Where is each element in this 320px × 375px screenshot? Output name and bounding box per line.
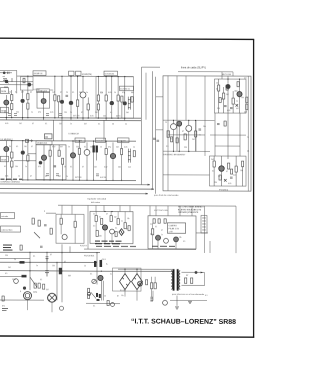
resistor R13	[117, 95, 119, 101]
svg-text:para television en el transfor: para television en el transformador	[172, 293, 205, 296]
svg-text:47: 47	[161, 230, 163, 232]
transformer secondary winding arcs	[179, 271, 180, 290]
svg-text:0.1: 0.1	[115, 228, 117, 230]
svg-text:b+: b+	[106, 263, 108, 265]
resistor R14b	[131, 97, 133, 103]
svg-text:470: 470	[38, 166, 41, 168]
svg-text:220: 220	[214, 182, 217, 184]
svg-text:= 6V: = 6V	[169, 231, 174, 233]
wire R10-R11 chain	[97, 77, 99, 118]
svg-text:DO/CM: DO/CM	[96, 140, 103, 142]
resistor R60	[151, 283, 153, 289]
resistor R28 right margin	[246, 104, 248, 110]
svg-text:1n: 1n	[161, 234, 163, 236]
switch S3 diagonal small	[91, 292, 96, 298]
svg-text:1k: 1k	[14, 259, 16, 261]
resistor R67	[176, 138, 178, 143]
sync stage sub-box upper	[215, 79, 247, 113]
boxed label top B	[76, 71, 81, 75]
svg-text:4k7 6: 4k7 6	[116, 115, 120, 117]
lamp LP2 circle with X	[138, 281, 143, 286]
small rect cluster y283-290	[34, 283, 36, 288]
svg-text:b2: b2	[30, 92, 32, 94]
svg-text:CARGA EQUIVALENTE: CARGA EQUIVALENTE	[178, 211, 199, 214]
svg-text:2k2: 2k2	[116, 146, 119, 148]
capacitor C17	[217, 124, 220, 125]
wire mid transistor leads	[174, 120, 189, 151]
wire x70 stub	[69, 246, 71, 252]
resistor R6	[54, 95, 56, 101]
stripe1 rail crossing ticks	[6, 118, 125, 121]
bridge rectifier BR1	[120, 274, 131, 290]
svg-text:DK/MF 03: DK/MF 03	[34, 73, 43, 75]
svg-text:4k7: 4k7	[21, 92, 24, 94]
resistor R21	[78, 148, 80, 154]
wire bus line 1	[0, 183, 150, 186]
svg-text:0.02 56: 0.02 56	[100, 177, 106, 179]
svg-text:2n2: 2n2	[233, 174, 236, 176]
diode D5 tick	[224, 179, 227, 182]
svg-text:220: 220	[184, 147, 187, 149]
resistor R62	[185, 278, 187, 284]
resistor R40	[38, 220, 40, 226]
transistor T3 FM osc	[41, 99, 46, 104]
svg-text:2k2: 2k2	[150, 234, 153, 236]
svg-text:0.05: 0.05	[50, 112, 53, 114]
svg-text:0.1: 0.1	[70, 166, 72, 168]
svg-text:AM: AM	[45, 136, 48, 139]
svg-text:1k2: 1k2	[103, 115, 106, 117]
wire bus line 4 (y205)	[58, 204, 236, 207]
motor M1 double circle	[24, 292, 32, 300]
bus 3 arrowhead	[146, 193, 148, 195]
capacitor C19 on vertical	[157, 140, 160, 141]
svg-text:10k: 10k	[127, 218, 130, 220]
wire y276	[0, 275, 25, 277]
wire T5 leads	[82, 76, 84, 118]
resistor R35	[213, 161, 215, 167]
svg-text:10k: 10k	[64, 112, 67, 114]
narrow connector box	[201, 215, 207, 233]
resistor R38	[242, 161, 244, 167]
border frame bottom edge	[0, 336, 254, 337]
transistor T12	[39, 161, 43, 165]
svg-text:0.5: 0.5	[166, 146, 168, 148]
svg-text:2k: 2k	[64, 166, 66, 168]
cable pair to motor	[101, 281, 103, 301]
power junction dots	[29, 252, 30, 253]
wire T9 to box	[14, 160, 36, 162]
resistor R39	[32, 218, 34, 224]
svg-text:1k: 1k	[93, 213, 95, 215]
output stage sub-box lower	[210, 156, 247, 186]
wire box droppers	[50, 145, 63, 180]
svg-text:DO/CM 31: DO/CM 31	[120, 89, 130, 91]
wire bridges down	[125, 290, 137, 301]
svg-text:1k: 1k	[150, 224, 152, 226]
pilot lamp LP1	[14, 279, 19, 284]
svg-text:0.1: 0.1	[40, 279, 42, 281]
wire x177 down	[176, 296, 178, 306]
svg-text:del motor: del motor	[91, 201, 100, 204]
wire motor box droppers	[96, 211, 125, 243]
svg-text:1k: 1k	[70, 112, 72, 114]
capacitor C3	[54, 166, 57, 167]
resistor R63	[191, 278, 193, 284]
svg-text:1n: 1n	[199, 134, 201, 136]
svg-text:1k: 1k	[9, 92, 11, 94]
svg-text:50Hz: 50Hz	[33, 292, 37, 294]
capacitor C12	[40, 246, 43, 247]
switch S2 diagonal power	[30, 277, 37, 287]
wire inter-stripe dropper x53.5	[53, 120, 55, 141]
wire inter-stripe dropper x62	[61, 120, 63, 141]
wire R17 dropper	[27, 141, 29, 180]
svg-text:47: 47	[60, 92, 62, 94]
wire y134 mid	[168, 134, 205, 136]
wire vertical x47	[46, 252, 48, 271]
svg-text:1n: 1n	[121, 221, 123, 223]
stripe2 bottom label dashes	[1, 178, 23, 180]
boxed label on stripe1 rail	[33, 71, 46, 76]
svg-text:2k2: 2k2	[192, 139, 195, 141]
transistor T22 (circle symbol)	[62, 234, 67, 239]
svg-text:4k7: 4k7	[84, 124, 87, 126]
narrow box inner marks	[202, 218, 206, 230]
wire stripe1 lower bus B	[0, 119, 141, 122]
wire mid horizontal y150.5	[163, 150, 210, 152]
capacitor C10	[158, 219, 160, 224]
svg-text:2k2: 2k2	[8, 267, 11, 269]
IF coil L5 winding ticks	[128, 97, 130, 110]
resistor R12	[105, 95, 107, 101]
svg-text:0.1: 0.1	[4, 166, 6, 168]
svg-text:DK/A: DK/A	[1, 158, 6, 161]
wire T21 leads	[221, 156, 223, 186]
rectifier box outline	[113, 268, 142, 291]
wire AC line upper	[118, 268, 173, 270]
resistor R29	[218, 85, 220, 91]
wire vertical x146 upper	[145, 73, 147, 120]
svg-text:DO/CM 031: DO/CM 031	[105, 74, 114, 76]
svg-text:1k: 1k	[18, 175, 20, 177]
wire tuner ground line	[0, 84, 33, 86]
resistor R64 bottom left	[2, 296, 4, 301]
transistor T11 AM osc	[41, 155, 46, 160]
transistor T24	[110, 229, 115, 234]
tuner shield box (left, cropped)	[0, 70, 17, 93]
wire AM box inner divider	[53, 145, 55, 180]
wire secondary right vertical	[204, 272, 206, 285]
wire stubs into sub-box top	[222, 72, 228, 79]
transistor T14	[84, 149, 90, 155]
svg-text:M 1: M 1	[2, 305, 5, 307]
svg-text:0.1: 0.1	[84, 146, 86, 148]
svg-text:1k: 1k	[114, 92, 116, 94]
tuner box inner marks	[3, 78, 12, 87]
resistor R47	[117, 219, 119, 225]
wire stripe1 top supply rail	[17, 75, 134, 78]
resistor R56	[88, 288, 90, 292]
stripe1 component pairs above lower bus	[8, 113, 62, 115]
svg-text:EFG/MHCI EFG/BHYBY: EFG/MHCI EFG/BHYBY	[164, 154, 186, 156]
resistor R32	[167, 131, 169, 138]
svg-text:CUATRO: CUATRO	[169, 224, 178, 227]
resistor R11	[97, 104, 99, 110]
electrolytic capacitor C13	[45, 271, 49, 277]
svg-text:2k2: 2k2	[58, 176, 61, 178]
svg-text:0.1: 0.1	[216, 89, 218, 91]
bottom-left misc marks	[2, 309, 8, 311]
svg-text:PILAS 1.5V: PILAS 1.5V	[169, 227, 180, 230]
wire T16 leads	[227, 79, 229, 113]
wire tuner AM line	[0, 80, 33, 82]
resistor R33	[184, 134, 186, 140]
svg-text:0.1: 0.1	[45, 123, 47, 125]
wire stripe1 lower bus A	[0, 117, 141, 120]
svg-text:47: 47	[126, 229, 128, 231]
transistor T19	[177, 121, 182, 126]
resistor R48c	[128, 226, 130, 231]
svg-text:4k7 100: 4k7 100	[75, 177, 81, 179]
wire T13 leads	[72, 141, 74, 180]
transformer primary winding arcs	[171, 271, 172, 290]
svg-text:470: 470	[38, 112, 41, 114]
svg-text:47: 47	[30, 176, 32, 178]
resistor R42	[60, 218, 62, 224]
resistor R37	[235, 166, 237, 172]
svg-text:0.5: 0.5	[93, 225, 95, 227]
resistor R1	[23, 78, 25, 83]
svg-text:4k7: 4k7	[236, 108, 239, 110]
wire T8 leads	[124, 77, 126, 118]
small circle bottom	[111, 303, 115, 307]
svg-text:0.1: 0.1	[90, 273, 92, 275]
small connector circle	[60, 306, 64, 310]
wire T14 leads	[86, 142, 88, 180]
wire stub y129 to box	[156, 129, 163, 131]
svg-text:0.02: 0.02	[52, 146, 55, 148]
transistor T28 regulator	[98, 275, 103, 280]
wire T6 leads	[70, 76, 72, 118]
resistor R29b	[226, 85, 228, 90]
capacitor C9 (box top row)	[153, 219, 155, 224]
power transformer TR1 core bars	[173, 269, 175, 291]
svg-text:0.1: 0.1	[72, 92, 74, 94]
antenna coupling component	[3, 71, 6, 74]
resistor R9	[87, 104, 89, 110]
border frame right edge	[253, 39, 255, 337]
wire vertical x30	[29, 252, 31, 290]
text row under motor box	[96, 245, 136, 247]
wire stripe3 bottom rail	[84, 248, 196, 251]
svg-text:10k: 10k	[52, 265, 55, 267]
svg-text:PY/CRB 4: PY/CRB 4	[219, 189, 229, 191]
boxed text CUATRO PILAS	[168, 223, 186, 234]
capacitor C8	[44, 225, 47, 226]
oscillator coil box L1	[21, 77, 34, 91]
svg-text:220: 220	[76, 146, 79, 148]
svg-text:0.05: 0.05	[108, 92, 111, 94]
transistor T20	[186, 125, 192, 131]
motor M2 outline with cross	[48, 293, 57, 302]
wire power rail y252	[0, 251, 100, 253]
wire T3 leads	[43, 92, 45, 118]
svg-text:DK/AM 0301: DK/AM 0301	[37, 142, 47, 145]
boxed label on rail C	[118, 138, 130, 143]
diode D3	[195, 271, 198, 274]
svg-text:0.05: 0.05	[227, 110, 230, 112]
wire antenna input	[0, 72, 12, 74]
resistor R66	[171, 137, 173, 142]
boxed label top A	[69, 71, 74, 75]
wire T9 leads	[5, 141, 7, 180]
transistor T13	[70, 153, 75, 158]
wire R4-R5 chain	[27, 76, 29, 118]
wire inner vertical x205	[204, 76, 206, 156]
svg-text:BD/Y 034: BD/Y 034	[222, 74, 232, 76]
resistor R48	[124, 223, 126, 229]
wire sub-box droppers	[219, 79, 234, 113]
resistor R43	[74, 221, 76, 227]
svg-text:0.1: 0.1	[98, 124, 100, 126]
arrowhead secondary	[201, 272, 203, 274]
svg-text:0.05: 0.05	[124, 146, 127, 148]
wire bus line 3	[0, 192, 148, 195]
wire long vertical x152	[151, 71, 153, 189]
wire R13 R14 droppers	[118, 77, 122, 118]
wire around R60 R61	[152, 277, 156, 301]
svg-text:2k: 2k	[125, 124, 127, 126]
capacitor C7	[230, 177, 233, 178]
resistor R41	[50, 228, 52, 234]
AM oscillator shield box	[36, 145, 66, 180]
capacitor C6	[199, 129, 202, 130]
svg-text:2k: 2k	[66, 92, 68, 94]
svg-text:2k2: 2k2	[59, 123, 62, 125]
svg-text:0.1: 0.1	[247, 151, 249, 153]
transistor T10	[21, 150, 25, 154]
wire bridges to AC top	[125, 269, 137, 273]
capacitor C16	[150, 300, 153, 301]
svg-text:10k: 10k	[179, 237, 182, 239]
resistor R48b	[115, 232, 117, 237]
svg-text:6k8: 6k8	[131, 92, 134, 94]
stripe2 junction dots bottom rail	[6, 179, 7, 180]
boxed label DO/CM 31	[120, 86, 134, 90]
svg-text:1n: 1n	[66, 176, 68, 178]
boxed label above FM osc box	[37, 89, 50, 93]
resistor R55 (dark)	[100, 260, 103, 267]
transistor T25 oscillator	[156, 235, 161, 240]
svg-text:“I.T.T. SCHAUB–LORENZ” SR88: “I.T.T. SCHAUB–LORENZ” SR88	[131, 318, 236, 325]
svg-text:47p: 47p	[122, 92, 125, 94]
resistor R53 horizontal (dark)	[22, 275, 27, 278]
wire label stub	[232, 72, 234, 76]
transistor T9 AM RF	[4, 147, 9, 152]
wire inner vertical x186	[185, 76, 187, 121]
tape oscillator box	[148, 216, 196, 249]
wire y262	[0, 261, 97, 263]
resistor R5	[27, 103, 29, 109]
resistor R59	[146, 280, 148, 285]
svg-text:0.1: 0.1	[110, 112, 112, 114]
resistor R46	[110, 216, 112, 222]
svg-text:10k: 10k	[203, 126, 206, 128]
svg-text:2n2: 2n2	[128, 167, 131, 169]
fuse F2 circle	[163, 300, 168, 305]
svg-text:DK/M: DK/M	[1, 91, 6, 93]
border frame top edge	[0, 38, 254, 39]
svg-text:0.05: 0.05	[90, 115, 93, 117]
svg-text:47: 47	[182, 131, 184, 133]
wire T7 leads	[111, 77, 113, 118]
svg-text:regulador velocidad: regulador velocidad	[87, 198, 107, 201]
svg-text:1k5: 1k5	[24, 146, 27, 148]
resistor R30	[223, 93, 225, 99]
transistor T8	[123, 101, 127, 105]
svg-text:1k2: 1k2	[94, 166, 97, 168]
wire under linea de caida label	[178, 71, 233, 73]
svg-text:1k: 1k	[100, 146, 102, 148]
transistor T1 FM RF	[4, 100, 9, 105]
capacitor C4	[224, 106, 227, 107]
wire bus line 2	[0, 187, 154, 190]
wire inner vertical x168	[167, 76, 169, 191]
wire R9 dropper	[87, 97, 89, 118]
svg-text:0.1: 0.1	[205, 295, 207, 297]
resistor R49	[96, 230, 98, 236]
svg-text:0.05: 0.05	[5, 123, 8, 125]
IF transformer shield box	[96, 77, 134, 119]
wire mid horizontal y174	[163, 174, 210, 176]
resistor R7	[58, 96, 60, 102]
svg-text:1n: 1n	[31, 112, 33, 114]
wire vertical x97	[96, 253, 98, 285]
boxed label DK/AM 0301	[36, 141, 52, 145]
svg-text:220: 220	[5, 255, 8, 257]
svg-text:0.05: 0.05	[228, 183, 231, 185]
resistor R4	[27, 94, 29, 100]
bus 1 arrowhead	[148, 184, 150, 186]
svg-text:1n5: 1n5	[52, 92, 55, 94]
electrolytic capacitor C14 (dark)	[59, 268, 62, 275]
resistor R17	[27, 155, 29, 161]
wire AC line lower	[0, 270, 173, 273]
resistor R8	[76, 100, 78, 107]
wire R12 dropper	[105, 77, 107, 118]
resistor R52 horizontal (dark)	[20, 261, 25, 264]
trimmer component inside L1 box	[27, 83, 31, 87]
AM IF coil winding ticks	[128, 149, 130, 163]
osc box bottom text dashes	[152, 245, 175, 247]
wire T11 leads	[43, 145, 45, 180]
svg-text:1k: 1k	[84, 265, 86, 267]
wire into preamp box	[46, 212, 56, 214]
svg-text:4k7: 4k7	[46, 289, 49, 291]
svg-text:220: 220	[100, 92, 103, 94]
svg-text:linea de caida (SL/PY): linea de caida (SL/PY)	[181, 66, 206, 69]
transistor T5 IF amp	[80, 92, 86, 98]
transistor T21	[219, 166, 225, 172]
wire y299.7	[170, 300, 207, 302]
dark cluster rects x96-100	[96, 293, 98, 297]
transistor T23 motor reg	[102, 225, 107, 230]
svg-text:47: 47	[221, 99, 223, 101]
svg-text:05/MF(FM): 05/MF(FM)	[82, 74, 92, 76]
wire stripe3 droppers from bus4	[62, 205, 236, 253]
svg-text:0.1: 0.1	[93, 305, 95, 307]
